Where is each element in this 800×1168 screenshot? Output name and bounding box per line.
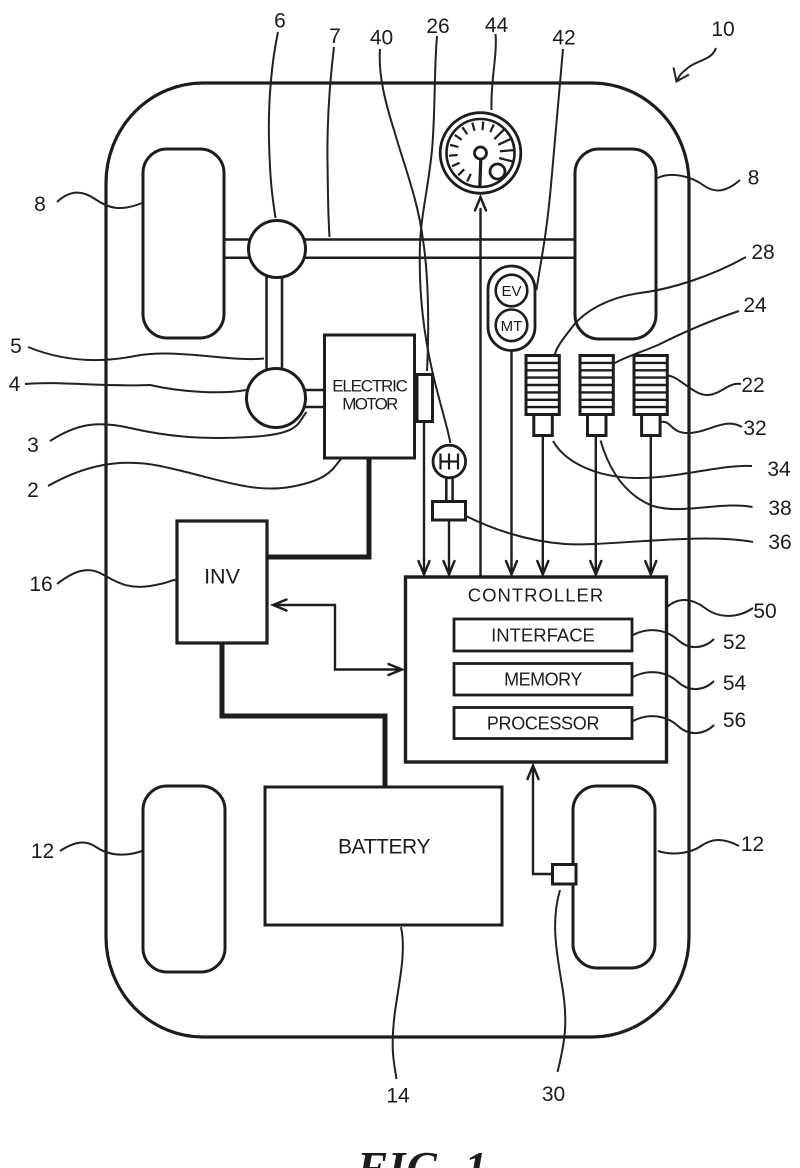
electric motor box 2 (325, 335, 415, 458)
controller box 50 (406, 577, 667, 762)
svg-text:30: 30 (542, 1083, 565, 1106)
leader 12 left (60, 842, 142, 854)
svg-text:52: 52 (723, 631, 746, 654)
shifter stem (445, 478, 448, 502)
svg-text:EV: EV (501, 283, 521, 300)
svg-text:MEMORY: MEMORY (504, 670, 582, 690)
svg-text:50: 50 (753, 600, 776, 623)
wire 26 to controller (448, 520, 450, 574)
leader 56 (633, 716, 714, 733)
svg-text:14: 14 (386, 1085, 410, 1108)
svg-text:MT: MT (501, 318, 523, 335)
INV controller link (274, 605, 399, 670)
pedal 28 (526, 356, 559, 575)
svg-text:10: 10 (711, 18, 734, 41)
leader 36 (466, 516, 753, 544)
leader 12 right (658, 840, 739, 854)
motor sensor 40 (417, 375, 433, 422)
svg-text:PROCESSOR: PROCESSOR (487, 714, 600, 734)
shaft between gears (265, 260, 268, 372)
svg-text:34: 34 (767, 458, 791, 481)
leader 7 (327, 47, 334, 237)
wheel RL 12 (143, 786, 225, 972)
leader 14 (393, 927, 403, 1079)
shift sensor box (433, 502, 466, 521)
wheel sensor 30 (553, 865, 577, 885)
svg-text:CONTROLLER: CONTROLLER (468, 585, 604, 606)
INV box 16 (177, 521, 267, 643)
EV MT indicator 42 (488, 266, 535, 351)
memory box 54 (454, 664, 632, 696)
pedal 22 (634, 356, 667, 575)
wire 42 to controller (510, 351, 512, 574)
power line INV to battery (222, 642, 385, 788)
svg-text:5: 5 (10, 335, 22, 358)
wheel RR 12 (573, 786, 655, 968)
leader 32 (661, 422, 742, 433)
svg-text:42: 42 (552, 27, 575, 50)
svg-text:MOTOR: MOTOR (342, 395, 398, 414)
leader 34 (553, 441, 752, 478)
wheel FL 8 (143, 149, 224, 338)
svg-text:40: 40 (370, 27, 393, 50)
gauge 44 (440, 113, 521, 194)
leader 28 (555, 257, 747, 356)
leader 52 (633, 630, 714, 647)
leader 24 (613, 311, 740, 365)
leader 8 left (57, 193, 142, 208)
svg-text:54: 54 (723, 672, 747, 695)
needle (480, 158, 481, 187)
leader 16 (57, 570, 177, 587)
svg-text:7: 7 (329, 25, 341, 48)
leader 2 (48, 459, 341, 489)
svg-text:FIG. 1: FIG. 1 (356, 1143, 488, 1168)
leader 26 (420, 36, 451, 443)
svg-text:3: 3 (27, 434, 39, 457)
wire 40 to controller (423, 422, 425, 575)
vehicle body outline 10 (106, 83, 689, 1037)
leader 44 (491, 34, 495, 110)
leader 10 arrow (678, 48, 717, 80)
leader 38 (601, 441, 753, 510)
svg-text:4: 4 (9, 373, 21, 396)
svg-text:26: 26 (426, 15, 449, 38)
svg-text:BATTERY: BATTERY (338, 836, 431, 859)
motor shaft 3 (304, 389, 326, 392)
gear circle 4 (247, 369, 306, 428)
svg-text:ELECTRIC: ELECTRIC (332, 377, 407, 396)
leader 8 right (658, 175, 741, 191)
leader 54 (633, 672, 714, 689)
svg-text:12: 12 (31, 840, 54, 863)
battery box 14 (265, 787, 502, 925)
leader 30 (555, 890, 565, 1072)
interface box 52 (454, 619, 632, 651)
svg-text:INTERFACE: INTERFACE (491, 625, 595, 646)
svg-text:2: 2 (27, 479, 39, 502)
leader 42 (537, 49, 564, 290)
svg-text:44: 44 (485, 14, 509, 37)
svg-text:6: 6 (274, 10, 286, 33)
svg-text:22: 22 (741, 374, 764, 397)
power line motor to INV (268, 456, 369, 557)
svg-text:16: 16 (29, 573, 52, 596)
gear circle 6 (249, 221, 306, 278)
svg-text:INV: INV (204, 565, 241, 589)
svg-text:8: 8 (34, 193, 46, 216)
leader 50 (667, 600, 753, 616)
svg-text:24: 24 (743, 294, 767, 317)
wire 30 to controller (533, 766, 553, 874)
processor box 56 (454, 708, 632, 739)
svg-text:36: 36 (768, 531, 791, 554)
svg-text:28: 28 (751, 241, 774, 264)
leader 3 (50, 412, 307, 441)
svg-text:8: 8 (748, 167, 760, 190)
svg-text:56: 56 (723, 709, 746, 732)
leader 6 (269, 32, 278, 218)
pedal 24 (580, 356, 613, 575)
svg-text:12: 12 (741, 833, 764, 856)
shifter 26 circle (433, 445, 466, 478)
svg-text:38: 38 (768, 497, 791, 520)
wire controller to gauge (479, 209, 481, 577)
leader 22 (668, 376, 741, 396)
svg-text:32: 32 (743, 417, 766, 440)
leader 40 (380, 49, 428, 371)
leader 4 (25, 383, 246, 392)
wheel FR 8 (575, 149, 656, 339)
leader 5 (28, 347, 264, 360)
front axle (224, 238, 575, 241)
